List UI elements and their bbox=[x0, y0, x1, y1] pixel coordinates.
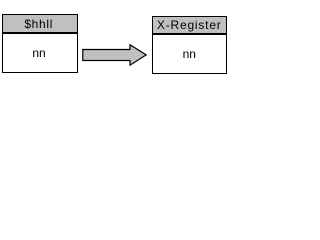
box X-Register bbox=[152, 16, 228, 74]
header X-Register bbox=[153, 17, 227, 35]
header $hhll bbox=[3, 15, 77, 34]
value nn (X register) bbox=[153, 47, 227, 61]
arrow (memory to X-Register) bbox=[0, 0, 229, 90]
value nn (memory) bbox=[3, 46, 77, 60]
box $hhll (memory) bbox=[2, 14, 78, 73]
